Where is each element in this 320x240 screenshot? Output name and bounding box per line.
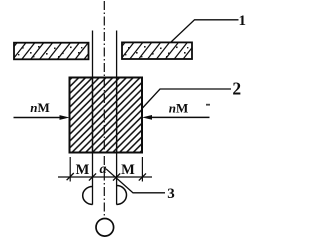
svg-text:M: M — [76, 162, 90, 178]
dimension tick at left wire — [89, 173, 96, 180]
wire electrode right line — [116, 31, 118, 205]
svg-text:3: 3 — [167, 186, 175, 202]
stray scan mark — [206, 104, 210, 106]
svg-text:M: M — [121, 162, 135, 178]
dimension tick at block left edge — [67, 173, 74, 180]
plate 1 left — [4, 43, 97, 60]
block 2 (consumable guide / slag pool block) — [70, 78, 143, 153]
dimension extension line right — [141, 157, 143, 182]
dimension extension line left — [69, 157, 71, 182]
wire electrode left line — [92, 31, 94, 205]
wire overdraw inside block left — [92, 78, 94, 152]
dimension line M a M — [58, 176, 152, 178]
force arrow right nM — [142, 101, 210, 120]
wire overdraw inside block right — [116, 78, 118, 152]
leader to label 1 — [171, 20, 239, 43]
centerline (wire axis, dash-dot) — [103, 1, 105, 219]
leader to label 3 — [106, 169, 165, 193]
dimension tick at block right edge — [139, 173, 146, 180]
wire loop left (semicircle) — [83, 187, 93, 205]
svg-text:2: 2 — [232, 79, 241, 99]
dimension tick at right wire — [113, 173, 120, 180]
wire loop right (semicircle) — [117, 186, 127, 205]
wire coil circle at bottom — [96, 219, 114, 237]
force arrow left nM — [14, 100, 70, 120]
leader to label 2 — [143, 89, 232, 108]
svg-text:a: a — [100, 162, 107, 177]
plate 1 right — [112, 42, 205, 59]
svg-text:nM: nM — [30, 100, 50, 115]
svg-text:1: 1 — [239, 13, 247, 29]
svg-text:nM: nM — [169, 101, 189, 116]
